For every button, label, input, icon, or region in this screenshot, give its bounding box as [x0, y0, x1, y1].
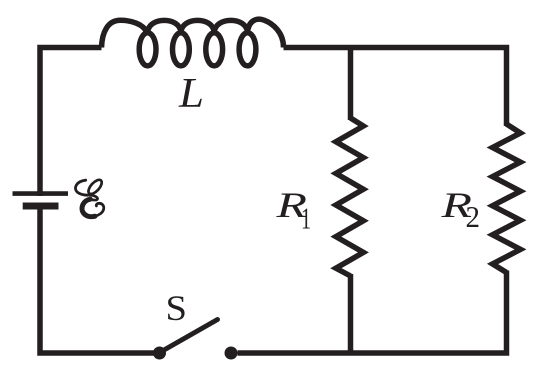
wire top-right run and right drop — [284, 48, 507, 127]
wire middle branch upper — [348, 48, 354, 121]
inductor L coil entry hump — [102, 20, 147, 47]
svg-text:L: L — [178, 71, 204, 117]
inductor L coil loop 2 — [173, 33, 190, 66]
svg-text:1: 1 — [301, 200, 311, 235]
resistor R2 zigzag — [493, 124, 521, 273]
battery EMF source: short thick plate — [23, 203, 59, 210]
battery EMF source: long plate — [13, 191, 69, 196]
inductor L coil hump 3 — [181, 20, 214, 32]
inductor L coil loop 3 — [206, 33, 223, 66]
svg-text:2: 2 — [466, 200, 481, 234]
inductor L coil hump 4 — [214, 20, 247, 32]
wire middle branch lower — [348, 274, 354, 353]
inductor L coil hump 2 — [148, 20, 181, 32]
inductor L coil loop 4 — [239, 33, 256, 66]
switch S: blade — [161, 320, 218, 353]
wire left-top run — [40, 48, 102, 197]
inductor L coil loop 1 — [139, 33, 156, 66]
svg-text:S: S — [166, 288, 188, 328]
switch S: right contact dot — [225, 347, 238, 360]
wire right-bottom run — [238, 271, 507, 354]
resistor R1 zigzag — [336, 118, 364, 276]
inductor L coil exit hump — [248, 19, 284, 47]
label script-E EMF symbol — [75, 178, 104, 217]
switch S: left contact dot — [153, 347, 166, 360]
wire bottom-left run — [40, 204, 154, 353]
